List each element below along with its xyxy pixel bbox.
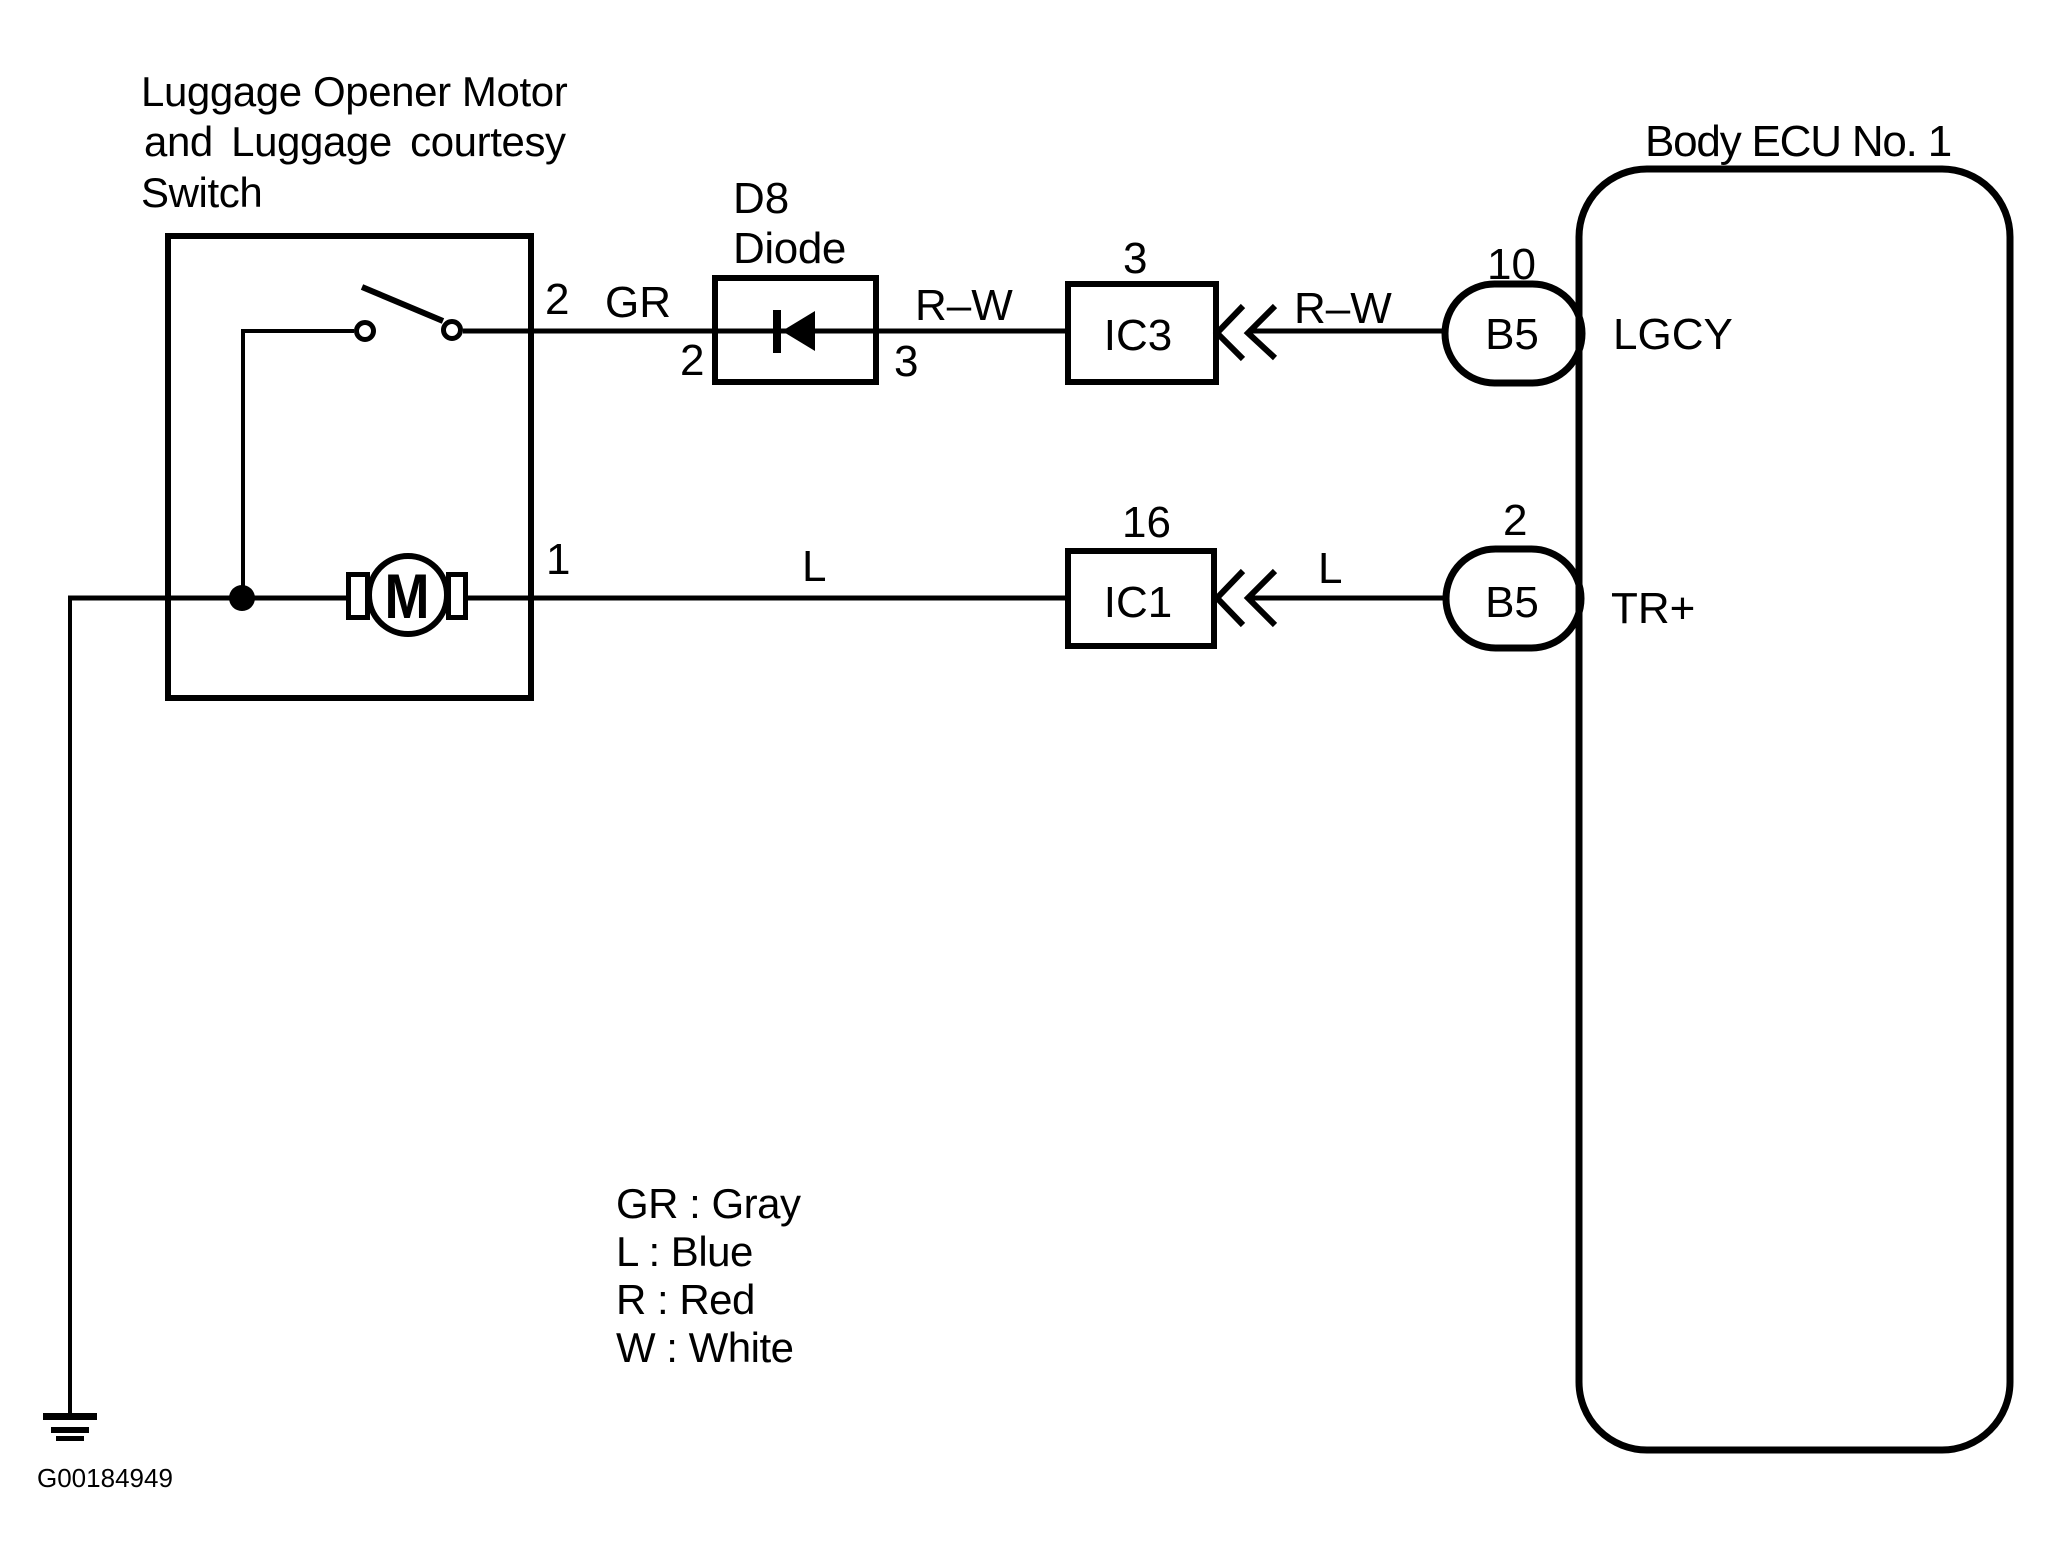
svg-text:GR: GR [605,278,671,327]
svg-text:2: 2 [545,275,569,324]
svg-text:IC1: IC1 [1104,578,1172,627]
svg-text:2: 2 [1503,496,1527,545]
svg-text:10: 10 [1487,240,1536,289]
svg-text:W : White: W : White [616,1324,794,1371]
svg-text:L: L [802,542,826,591]
svg-text:B5: B5 [1485,578,1539,627]
svg-text:M: M [385,562,430,632]
svg-text:3: 3 [1123,234,1147,283]
svg-text:Luggage Opener Motor: Luggage Opener Motor [141,68,568,115]
svg-text:16: 16 [1122,498,1171,547]
svg-text:Body ECU No. 1: Body ECU No. 1 [1645,117,1951,166]
svg-text:L : Blue: L : Blue [616,1228,753,1275]
svg-text:3: 3 [894,337,918,386]
svg-text:LGCY: LGCY [1613,310,1733,359]
svg-text:TR+: TR+ [1611,584,1695,633]
svg-text:B5: B5 [1485,310,1539,359]
svg-text:Switch: Switch [141,169,262,216]
svg-text:R : Red: R : Red [616,1276,755,1323]
svg-text:D8: D8 [733,174,789,223]
svg-text:G00184949: G00184949 [37,1463,173,1493]
svg-text:2: 2 [680,336,704,385]
svg-text:R–W: R–W [1294,284,1392,333]
svg-text:GR : Gray: GR : Gray [616,1180,801,1227]
svg-text:L: L [1318,544,1342,593]
svg-text:R–W: R–W [915,281,1013,330]
svg-text:IC3: IC3 [1104,311,1172,360]
svg-text:and Luggage courtesy: and Luggage courtesy [144,118,566,165]
svg-text:Diode: Diode [733,224,846,273]
svg-text:1: 1 [546,535,570,584]
